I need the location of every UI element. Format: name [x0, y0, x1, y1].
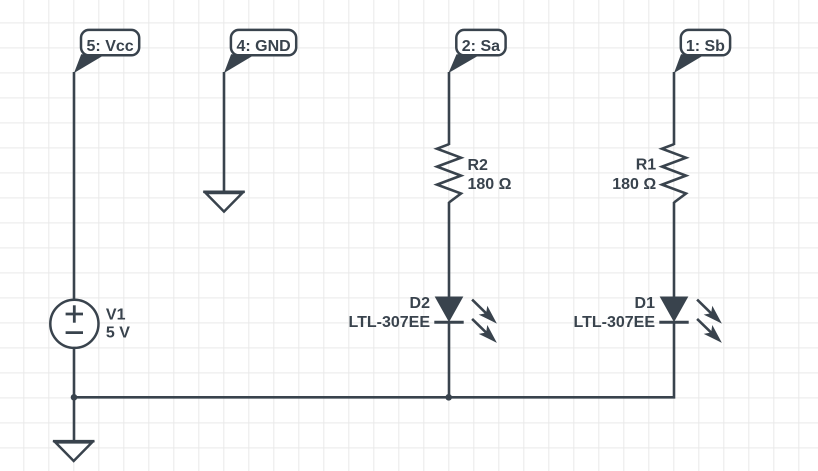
wire ground stem — [73, 397, 76, 441]
svg-text:180 Ω: 180 Ω — [612, 176, 656, 193]
svg-text:5 V: 5 V — [106, 324, 130, 341]
svg-text:4: GND: 4: GND — [236, 38, 290, 55]
svg-text:LTL-307EE: LTL-307EE — [349, 314, 431, 331]
wire GND vertical — [223, 72, 226, 192]
svg-text:R2: R2 — [468, 157, 489, 174]
svg-text:1: Sb: 1: Sb — [686, 38, 725, 55]
junction node Sa — [445, 394, 452, 401]
svg-text:V1: V1 — [106, 307, 126, 324]
net flag 4: GND — [224, 30, 296, 73]
svg-text:5: Vcc: 5: Vcc — [87, 38, 134, 55]
voltage source V1 — [50, 300, 98, 348]
wire Sa vertical — [448, 72, 451, 145]
svg-text:180 Ω: 180 Ω — [468, 176, 512, 193]
ground GND net — [203, 192, 245, 212]
wire V1 to rail — [73, 349, 76, 397]
svg-text:D1: D1 — [635, 295, 656, 312]
LED D1 — [659, 298, 722, 343]
net flag 1: Sb — [674, 30, 730, 73]
wire R2 to D2 — [448, 202, 451, 298]
net flag 5: Vcc — [74, 30, 139, 73]
net flag 2: Sa — [449, 30, 506, 73]
wire Sb vertical — [673, 72, 676, 145]
ground bottom-left — [53, 441, 95, 461]
resistor R1 — [662, 144, 686, 202]
wire Vcc vertical — [73, 72, 76, 299]
wire R1 to D1 — [673, 202, 676, 298]
svg-text:LTL-307EE: LTL-307EE — [574, 314, 656, 331]
junction node left — [71, 394, 78, 401]
LED D2 — [434, 298, 497, 343]
svg-text:D2: D2 — [410, 295, 431, 312]
svg-text:R1: R1 — [636, 157, 657, 174]
wire bottom rail — [74, 322, 674, 397]
wire D2 to rail — [448, 322, 451, 397]
svg-text:2: Sa: 2: Sa — [462, 38, 500, 55]
resistor R2 — [437, 144, 461, 202]
